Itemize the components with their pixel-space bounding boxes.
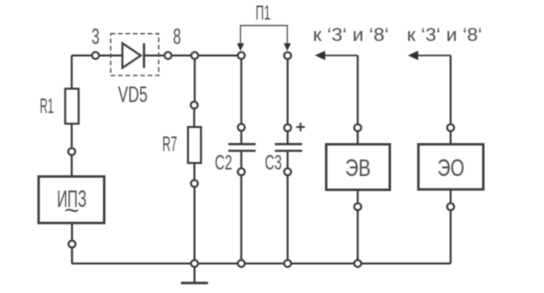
wire EO box to circle xyxy=(450,189,452,202)
wire IPZ box to circle xyxy=(71,223,73,240)
block EO box xyxy=(418,144,483,189)
wire bottom bus xyxy=(72,263,451,265)
block IPZ box xyxy=(39,177,105,224)
arrowhead EV xyxy=(315,51,325,60)
wire R7 body to circle xyxy=(193,163,195,179)
svg-text:ЭВ: ЭВ xyxy=(345,155,371,182)
wire C3 circle to plate xyxy=(287,132,289,144)
wire C2 plate to circle xyxy=(240,151,242,168)
wire C3 circle to bus xyxy=(287,176,289,264)
svg-text:~: ~ xyxy=(64,195,79,225)
wire C3 plate to circle xyxy=(287,151,289,168)
arrow line to EO (k '3' i '8') xyxy=(416,54,451,56)
arrow line to EV (k '3' i '8') xyxy=(323,54,358,56)
wire C2 circle to bus xyxy=(240,176,242,264)
svg-text:П1: П1 xyxy=(256,2,271,24)
EV lower terminal xyxy=(354,203,361,210)
ground bar xyxy=(181,282,208,284)
svg-text:ЭО: ЭО xyxy=(437,155,464,182)
wire R1 bottom stem xyxy=(71,124,73,148)
C2 lower terminal xyxy=(238,168,245,175)
wire diode cathode to node 8 xyxy=(144,55,164,57)
bus junction under C2 xyxy=(238,260,245,267)
capacitor C3 plates xyxy=(275,144,302,151)
svg-text:к ‘3‘ и ‘8‘: к ‘3‘ и ‘8‘ xyxy=(313,25,389,45)
svg-text:8: 8 xyxy=(173,24,181,49)
C3 lower terminal xyxy=(284,168,291,175)
C3 upper terminal xyxy=(284,124,291,131)
diode VD5 cathode bar xyxy=(143,43,145,68)
svg-text:VD5: VD5 xyxy=(118,82,148,107)
wire junction to R7 top circle xyxy=(194,56,196,101)
svg-text:3: 3 xyxy=(92,24,100,49)
bus junction under EV xyxy=(354,260,361,267)
wire P1 right terminal to C3 xyxy=(287,60,289,124)
resistor R1 xyxy=(65,89,78,124)
C3 plus sign xyxy=(296,123,305,132)
wire IPZ circle to bottom bus xyxy=(71,248,73,263)
wire EO circle to bus xyxy=(450,211,452,264)
wire node 8 to junction xyxy=(172,55,190,57)
wire C2 circle to plate xyxy=(240,132,242,145)
ground stem xyxy=(194,264,196,284)
wire R7 circle to bus xyxy=(194,188,196,264)
diode VD5 dashed box xyxy=(111,34,159,76)
diode VD5 triangle xyxy=(122,43,140,68)
C2 upper terminal xyxy=(238,124,245,131)
terminal circles xyxy=(68,52,454,267)
svg-text:к ‘3‘ и ‘8‘: к ‘3‘ и ‘8‘ xyxy=(407,25,482,45)
wire EO vertical from arrow corner to circle xyxy=(450,55,452,123)
svg-text:R7: R7 xyxy=(162,133,177,156)
wire junction to P1 left terminal xyxy=(199,55,237,57)
node 8 terminal xyxy=(165,52,172,59)
P1 arrowhead right xyxy=(284,43,291,51)
node 3 terminal xyxy=(92,52,99,59)
P1 bracket xyxy=(241,26,288,44)
bus junction under R7/ground xyxy=(191,260,198,267)
svg-text:C2: C2 xyxy=(215,151,233,174)
wire EV circle to bus xyxy=(357,211,359,264)
EO upper terminal xyxy=(447,124,454,131)
wire P1 left terminal to C2 xyxy=(240,60,242,123)
svg-text:R1: R1 xyxy=(40,95,54,118)
capacitor C2 plates xyxy=(228,144,255,151)
wire circle to IPZ box xyxy=(71,156,73,177)
IPZ lower terminal xyxy=(69,241,76,248)
P1 arrowhead left xyxy=(237,43,244,51)
block EV box xyxy=(326,144,390,190)
svg-text:C3: C3 xyxy=(265,151,282,174)
R1 lower terminal xyxy=(68,148,75,155)
wire EV circle to box xyxy=(357,132,359,144)
EV upper terminal xyxy=(354,124,361,131)
P1 left terminal xyxy=(238,52,245,59)
P1 right terminal xyxy=(284,52,291,59)
wire EV box to circle xyxy=(357,190,359,203)
bus junction under C3 xyxy=(284,260,291,267)
EO lower terminal xyxy=(447,203,454,210)
R7 upper terminal xyxy=(191,102,198,109)
resistor R7 xyxy=(188,127,201,163)
wire R7 circle to body xyxy=(193,109,195,127)
wire R1 top stem xyxy=(71,56,73,89)
arrowhead EO xyxy=(408,51,418,60)
wire top bus from R1 corner to node 3 xyxy=(72,55,92,57)
wire EV vertical from arrow corner to circle xyxy=(357,55,359,123)
junction node 8/R7 xyxy=(191,52,198,59)
R7 lower terminal xyxy=(191,180,198,187)
wire EO circle to box xyxy=(450,132,452,144)
wire node 3 to diode anode xyxy=(100,55,123,57)
